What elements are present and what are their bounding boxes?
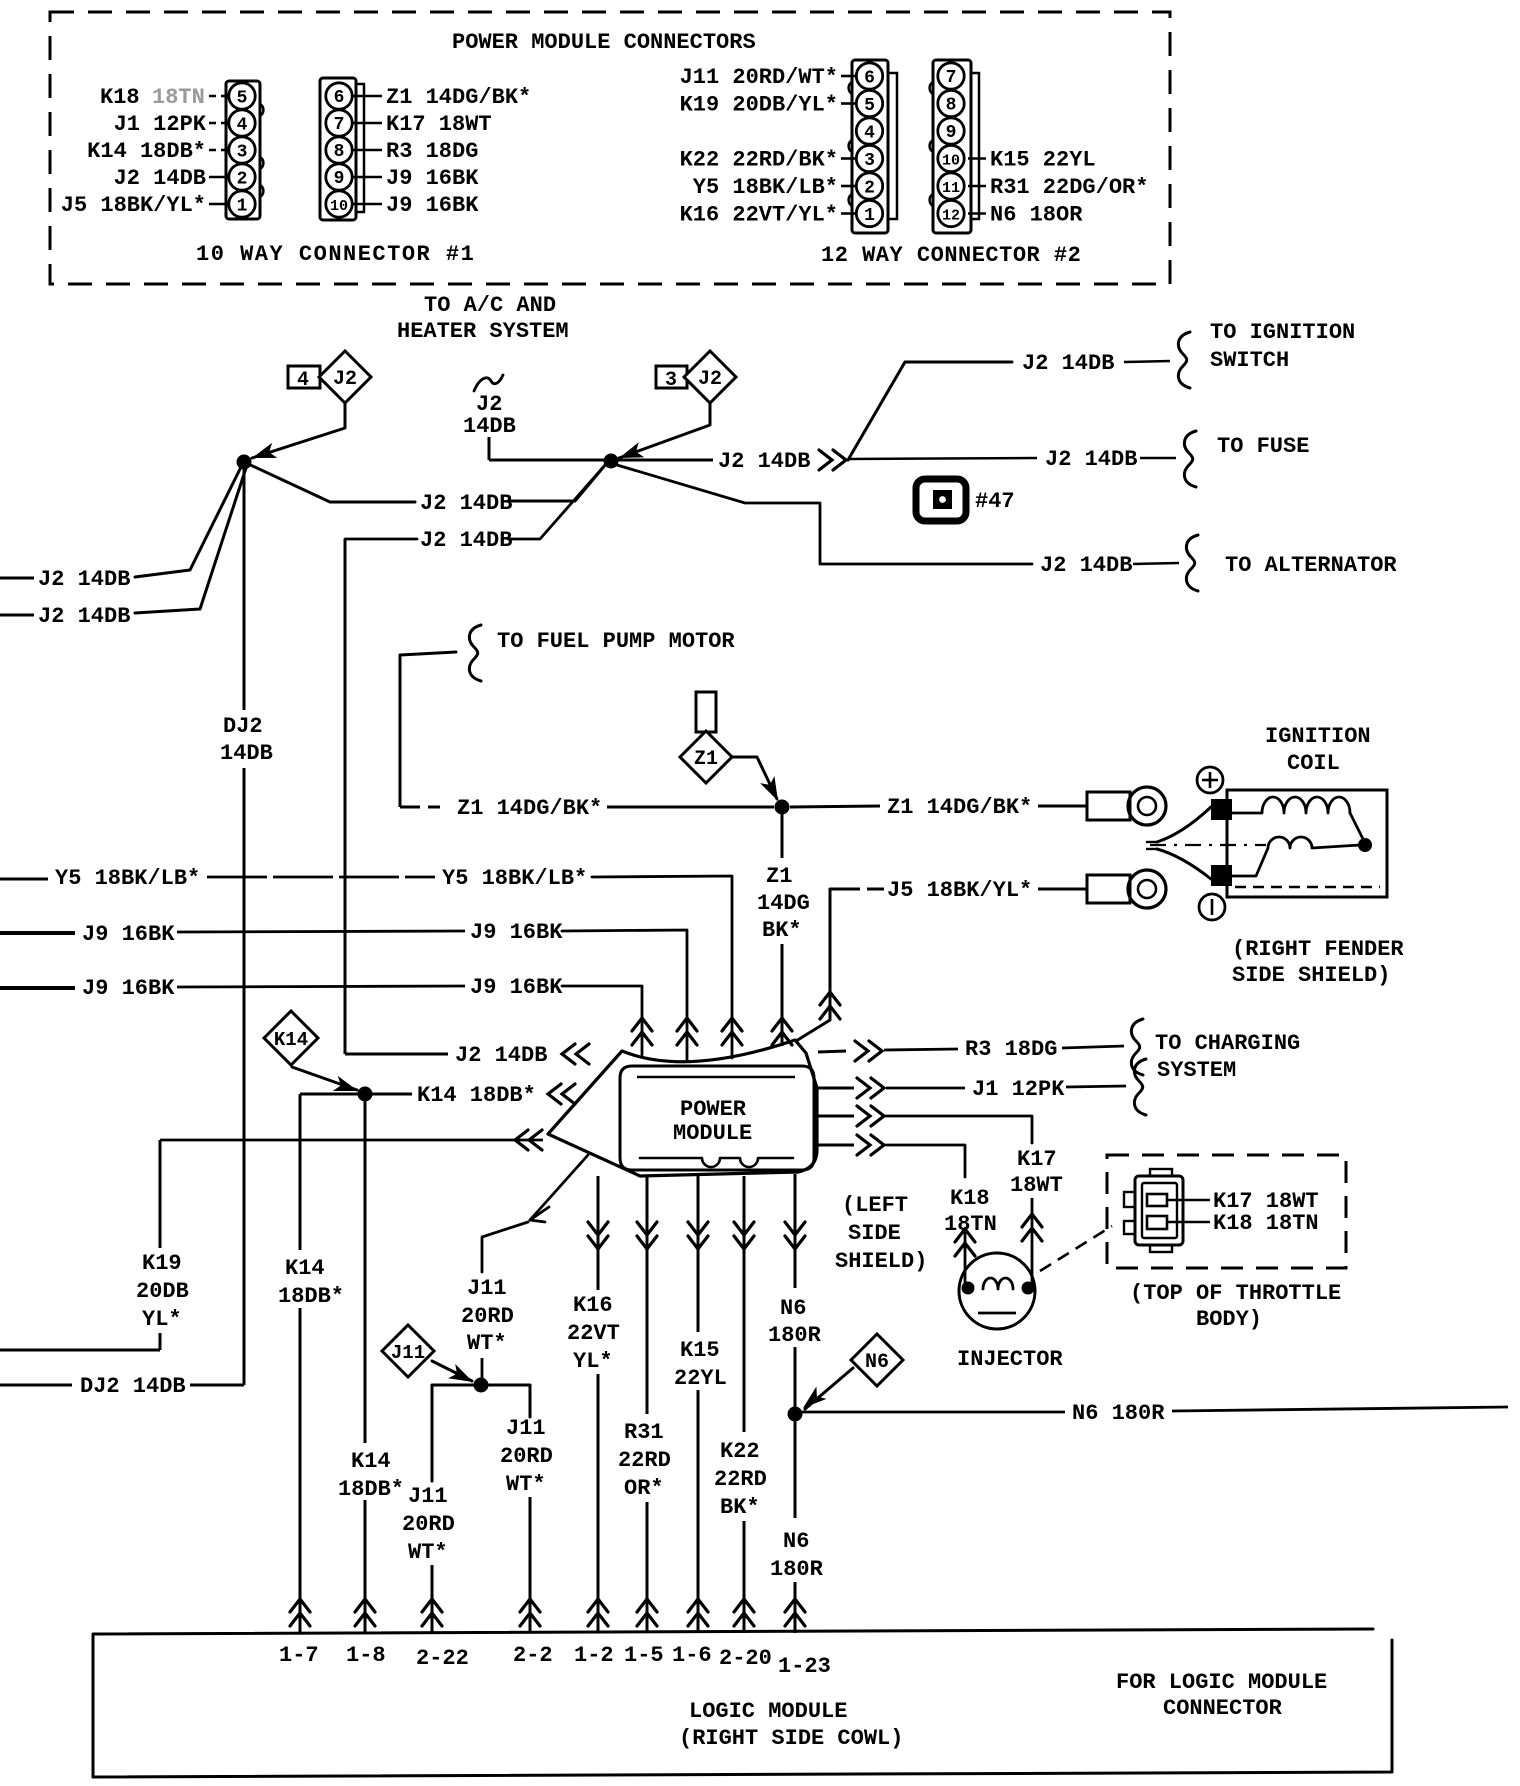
svg-text:J2 14DB: J2 14DB: [1022, 351, 1114, 376]
svg-text:J2 14DB: J2 14DB: [1045, 447, 1137, 472]
svg-text:180R: 180R: [768, 1323, 822, 1348]
svg-text:18TN: 18TN: [944, 1212, 997, 1237]
svg-text:DJ2: DJ2: [223, 714, 263, 739]
svg-text:Y5 18BK/LB*: Y5 18BK/LB*: [55, 866, 200, 891]
svg-text:14DB: 14DB: [463, 414, 516, 439]
svg-text:12 WAY CONNECTOR #2: 12 WAY CONNECTOR #2: [821, 243, 1081, 268]
svg-text:R3 18DG: R3 18DG: [965, 1037, 1057, 1062]
svg-text:Z1 14DG/BK*: Z1 14DG/BK*: [887, 795, 1032, 820]
svg-text:10 WAY CONNECTOR #1: 10 WAY CONNECTOR #1: [196, 242, 475, 267]
svg-text:J2 14DB: J2 14DB: [38, 567, 130, 592]
svg-text:J11 20RD/WT*: J11 20RD/WT*: [680, 65, 838, 90]
svg-text:J2 14DB: J2 14DB: [1040, 553, 1132, 578]
svg-text:J9 16BK: J9 16BK: [470, 975, 563, 1000]
svg-text:2-2: 2-2: [513, 1643, 553, 1668]
svg-text:SYSTEM: SYSTEM: [1157, 1058, 1236, 1083]
svg-text:J2 14DB: J2 14DB: [420, 528, 512, 553]
svg-text:TO FUSE: TO FUSE: [1217, 434, 1309, 459]
svg-text:9: 9: [334, 169, 345, 189]
svg-text:N6 180R: N6 180R: [1072, 1401, 1165, 1426]
svg-text:J9 16BK: J9 16BK: [82, 922, 175, 947]
svg-text:K19: K19: [142, 1251, 182, 1276]
svg-text:MODULE: MODULE: [673, 1121, 752, 1146]
svg-text:J2 14DB: J2 14DB: [455, 1043, 547, 1068]
svg-text:Z1: Z1: [694, 748, 718, 771]
svg-text:K18: K18: [100, 85, 140, 110]
svg-text:J9 16BK: J9 16BK: [386, 166, 479, 191]
svg-text:K17 18WT: K17 18WT: [386, 112, 492, 137]
svg-text:J2: J2: [333, 368, 357, 391]
svg-text:J11: J11: [467, 1276, 507, 1301]
svg-text:SIDE SHIELD): SIDE SHIELD): [1232, 963, 1390, 988]
svg-text:K18: K18: [950, 1186, 990, 1211]
svg-text:3: 3: [665, 369, 677, 392]
svg-text:J11: J11: [408, 1484, 448, 1509]
svg-text:LOGIC MODULE: LOGIC MODULE: [689, 1699, 847, 1724]
svg-text:3: 3: [237, 143, 248, 163]
svg-text:K19 20DB/YL*: K19 20DB/YL*: [680, 93, 838, 118]
svg-text:2-20: 2-20: [719, 1646, 772, 1671]
svg-text:18WT: 18WT: [1010, 1173, 1063, 1198]
svg-text:Y5 18BK/LB*: Y5 18BK/LB*: [693, 175, 838, 200]
svg-text:K17: K17: [1017, 1147, 1057, 1172]
svg-text:6: 6: [334, 88, 345, 108]
svg-text:11: 11: [942, 180, 960, 197]
svg-text:TO CHARGING: TO CHARGING: [1155, 1031, 1300, 1056]
svg-text:7: 7: [946, 68, 957, 88]
svg-text:Z1: Z1: [766, 864, 792, 889]
svg-text:(RIGHT FENDER: (RIGHT FENDER: [1232, 937, 1404, 962]
svg-text:J2 14DB: J2 14DB: [114, 166, 206, 191]
svg-text:8: 8: [946, 96, 957, 116]
svg-text:INJECTOR: INJECTOR: [957, 1347, 1063, 1372]
svg-text:Y5 18BK/LB*: Y5 18BK/LB*: [442, 866, 587, 891]
svg-text:J2 14DB: J2 14DB: [38, 604, 130, 629]
svg-text:J5 18BK/YL*: J5 18BK/YL*: [61, 193, 206, 218]
svg-text:20RD: 20RD: [500, 1444, 553, 1469]
svg-text:10: 10: [330, 198, 348, 215]
svg-text:J1 12PK: J1 12PK: [114, 112, 207, 137]
svg-text:SWITCH: SWITCH: [1210, 348, 1289, 373]
svg-text:18TN: 18TN: [152, 85, 205, 110]
svg-text:2: 2: [237, 170, 248, 190]
svg-text:1: 1: [864, 206, 875, 226]
svg-text:K22: K22: [720, 1439, 760, 1464]
svg-text:R31 22DG/OR*: R31 22DG/OR*: [990, 175, 1148, 200]
svg-text:J9 16BK: J9 16BK: [82, 976, 175, 1001]
svg-text:14DG: 14DG: [757, 891, 810, 916]
svg-text:J5 18BK/YL*: J5 18BK/YL*: [887, 878, 1032, 903]
svg-text:9: 9: [946, 123, 957, 143]
svg-text:R3 18DG: R3 18DG: [386, 139, 478, 164]
svg-text:K18 18TN: K18 18TN: [1213, 1211, 1319, 1236]
svg-text:18DB*: 18DB*: [278, 1284, 344, 1309]
svg-text:3: 3: [864, 151, 875, 171]
svg-text:20RD: 20RD: [461, 1304, 514, 1329]
svg-text:K14: K14: [285, 1256, 325, 1281]
svg-text:Z1 14DG/BK*: Z1 14DG/BK*: [386, 85, 531, 110]
svg-text:1-23: 1-23: [778, 1654, 831, 1679]
svg-text:J2 14DB: J2 14DB: [718, 449, 810, 474]
svg-text:1-2: 1-2: [574, 1643, 614, 1668]
svg-text:7: 7: [334, 115, 345, 135]
svg-text:(RIGHT SIDE COWL): (RIGHT SIDE COWL): [679, 1726, 903, 1751]
svg-text:J11: J11: [391, 1342, 425, 1364]
svg-text:K14 18DB*: K14 18DB*: [87, 139, 206, 164]
svg-text:K14: K14: [351, 1449, 391, 1474]
svg-text:5: 5: [864, 96, 875, 116]
svg-text:K14: K14: [274, 1029, 308, 1051]
svg-text:1-8: 1-8: [346, 1643, 386, 1668]
svg-text:WT*: WT*: [408, 1540, 448, 1565]
svg-text:22RD: 22RD: [618, 1448, 671, 1473]
svg-text:OR*: OR*: [624, 1476, 664, 1501]
svg-text:J2 14DB: J2 14DB: [420, 491, 512, 516]
svg-text:POWER: POWER: [680, 1097, 747, 1122]
svg-text:SHIELD): SHIELD): [835, 1249, 927, 1274]
svg-text:6: 6: [864, 69, 875, 89]
svg-text:BK*: BK*: [720, 1495, 760, 1520]
svg-text:TO IGNITION: TO IGNITION: [1210, 320, 1355, 345]
svg-text:WT*: WT*: [506, 1472, 546, 1497]
svg-text:12: 12: [942, 208, 960, 225]
svg-text:8: 8: [334, 142, 345, 162]
svg-text:4: 4: [297, 369, 309, 392]
svg-text:1-5: 1-5: [624, 1643, 664, 1668]
svg-text:BODY): BODY): [1196, 1307, 1262, 1332]
svg-text:IGNITION: IGNITION: [1265, 724, 1371, 749]
svg-text:2: 2: [864, 179, 875, 199]
svg-text:N6: N6: [865, 1351, 889, 1374]
svg-text:22YL: 22YL: [674, 1366, 727, 1391]
svg-text:COIL: COIL: [1287, 751, 1340, 776]
svg-text:1-6: 1-6: [672, 1643, 712, 1668]
svg-text:180R: 180R: [770, 1557, 824, 1582]
svg-text:CONNECTOR: CONNECTOR: [1163, 1696, 1283, 1721]
svg-text:K14 18DB*: K14 18DB*: [417, 1083, 536, 1108]
svg-text:FOR LOGIC MODULE: FOR LOGIC MODULE: [1116, 1670, 1327, 1695]
svg-text:BK*: BK*: [762, 918, 802, 943]
svg-text:POWER MODULE CONNECTORS: POWER MODULE CONNECTORS: [452, 30, 756, 55]
svg-text:10: 10: [942, 153, 960, 170]
svg-text:WT*: WT*: [467, 1331, 507, 1356]
svg-text:K16 22VT/YL*: K16 22VT/YL*: [680, 203, 838, 228]
svg-text:1-7: 1-7: [279, 1643, 319, 1668]
svg-text:J1 12PK: J1 12PK: [972, 1077, 1065, 1102]
svg-text:20RD: 20RD: [402, 1512, 455, 1537]
svg-text:K22 22RD/BK*: K22 22RD/BK*: [680, 148, 838, 173]
svg-text:J9 16BK: J9 16BK: [470, 920, 563, 945]
svg-text:J2: J2: [698, 368, 722, 391]
svg-text:SIDE: SIDE: [848, 1221, 901, 1246]
svg-text:TO ALTERNATOR: TO ALTERNATOR: [1225, 553, 1397, 578]
svg-text:22RD: 22RD: [714, 1467, 767, 1492]
svg-text:N6 18OR: N6 18OR: [990, 203, 1083, 228]
svg-text:HEATER SYSTEM: HEATER SYSTEM: [397, 319, 569, 344]
svg-text:4: 4: [864, 124, 875, 144]
svg-text:TO A/C AND: TO A/C AND: [424, 293, 556, 318]
svg-text:Z1 14DG/BK*: Z1 14DG/BK*: [457, 796, 602, 821]
svg-text:R31: R31: [624, 1420, 664, 1445]
svg-text:20DB: 20DB: [136, 1279, 189, 1304]
svg-text:J9 16BK: J9 16BK: [386, 193, 479, 218]
svg-text:TO FUEL PUMP MOTOR: TO FUEL PUMP MOTOR: [497, 629, 735, 654]
svg-text:K16: K16: [573, 1293, 613, 1318]
svg-text:YL*: YL*: [573, 1349, 613, 1374]
svg-text:N6: N6: [780, 1296, 806, 1321]
svg-text:18DB*: 18DB*: [338, 1477, 404, 1502]
svg-text:4: 4: [237, 116, 248, 136]
svg-text:(TOP OF THROTTLE: (TOP OF THROTTLE: [1130, 1281, 1341, 1306]
svg-text:5: 5: [237, 89, 248, 109]
svg-text:DJ2 14DB: DJ2 14DB: [80, 1374, 186, 1399]
svg-text:1: 1: [237, 197, 248, 217]
svg-text:YL*: YL*: [142, 1307, 182, 1332]
svg-text:2-22: 2-22: [416, 1646, 469, 1671]
svg-text:(LEFT: (LEFT: [842, 1193, 908, 1218]
svg-text:22VT: 22VT: [567, 1321, 620, 1346]
svg-text:14DB: 14DB: [220, 741, 273, 766]
svg-text:N6: N6: [783, 1529, 809, 1554]
svg-text:J11: J11: [506, 1416, 546, 1441]
svg-text:K15: K15: [680, 1338, 720, 1363]
svg-text:#47: #47: [975, 489, 1015, 514]
svg-text:K15 22YL: K15 22YL: [990, 148, 1096, 173]
